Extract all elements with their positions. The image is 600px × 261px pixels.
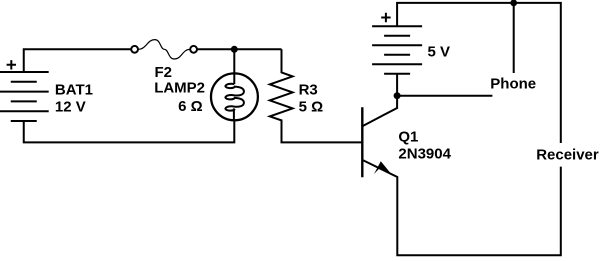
svg-text:5 Ω: 5 Ω bbox=[299, 98, 324, 115]
svg-text:5 V: 5 V bbox=[428, 44, 451, 61]
svg-text:R3: R3 bbox=[299, 81, 318, 98]
svg-text:F2: F2 bbox=[155, 64, 173, 81]
svg-text:BAT1: BAT1 bbox=[55, 81, 93, 98]
svg-text:Q1: Q1 bbox=[398, 128, 418, 145]
svg-text:6 Ω: 6 Ω bbox=[178, 98, 203, 115]
svg-text:2N3904: 2N3904 bbox=[398, 145, 451, 162]
svg-text:Receiver: Receiver bbox=[536, 146, 599, 163]
svg-text:Phone: Phone bbox=[490, 76, 536, 93]
svg-text:LAMP2: LAMP2 bbox=[154, 80, 205, 97]
svg-text:12 V: 12 V bbox=[55, 98, 86, 115]
